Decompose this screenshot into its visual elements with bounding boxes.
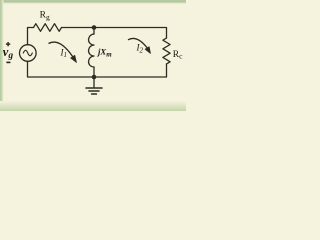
inductor jXm bbox=[89, 34, 94, 67]
junction node top bbox=[92, 25, 97, 30]
wire resistor Rc to bottom-right corner bbox=[94, 64, 167, 77]
polarity - bbox=[6, 61, 10, 63]
current arrow I1 bbox=[49, 42, 77, 62]
wire resistor Rg to top-right corner bbox=[62, 28, 167, 39]
wire middle branch top bbox=[93, 28, 95, 35]
junction node bottom bbox=[92, 75, 97, 80]
svg-text:Rc: Rc bbox=[173, 50, 183, 61]
resistor Rc bbox=[163, 38, 170, 64]
polarity + bbox=[6, 42, 10, 46]
current arrow I2 bbox=[128, 38, 151, 53]
source Vg bbox=[20, 45, 37, 62]
svg-text:Rg: Rg bbox=[40, 11, 50, 22]
wire middle branch bottom bbox=[93, 67, 95, 77]
wire top-left corner to resistor Rg bbox=[28, 28, 34, 45]
resistor Rg bbox=[34, 24, 62, 32]
sine symbol bbox=[23, 50, 32, 55]
wire bottom-left bbox=[28, 61, 95, 77]
ground bbox=[93, 77, 95, 87]
